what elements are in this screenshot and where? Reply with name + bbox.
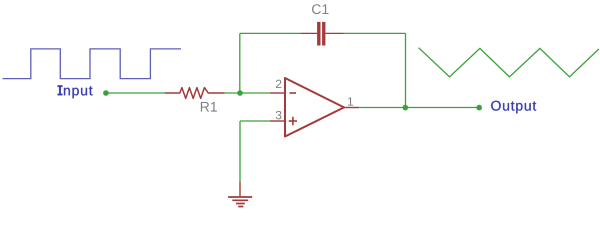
wire junction up to feedback: [239, 33, 241, 93]
label Output: [491, 101, 536, 114]
pin number 2: [276, 80, 281, 88]
pin number 3: [276, 111, 282, 120]
ground: [228, 182, 252, 207]
wire input dot to R1: [106, 92, 165, 94]
op-amp U1 pin 2 stub: [270, 92, 285, 94]
op-amp U1 output pin stub: [344, 107, 359, 109]
output triangle wave: [419, 48, 599, 77]
label Input: [58, 85, 93, 98]
wire feedback top left: [240, 32, 300, 34]
capacitor C1: [300, 22, 343, 46]
wire feedback top right: [344, 32, 406, 34]
wire feedback down to output: [405, 33, 407, 107]
wire output junction to terminal: [406, 107, 480, 109]
wire ground vertical: [239, 121, 241, 182]
label R1: [201, 102, 217, 112]
label C1: [312, 4, 329, 14]
wire R1 to junction and op-amp pin 2: [225, 92, 270, 94]
junction node at inverting input: [237, 90, 243, 96]
wire pin 3 to ground corner: [240, 120, 270, 122]
op-amp U1: [285, 78, 344, 137]
node: output terminal dot: [476, 105, 482, 111]
pin number 1: [348, 97, 353, 105]
op-amp U1 pin 3 stub: [270, 120, 285, 122]
input square wave: [3, 49, 182, 79]
resistor R1: [165, 88, 225, 99]
junction node at output: [403, 105, 409, 111]
node: input terminal dot: [103, 90, 109, 96]
wire output stub to junction: [359, 107, 405, 109]
